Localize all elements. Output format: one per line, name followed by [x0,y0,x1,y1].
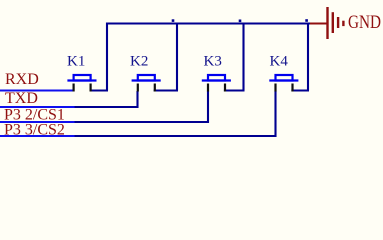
pin stub TXD (bright) [0,106,75,108]
svg-text:TXD: TXD [5,90,38,107]
power port GND [310,7,345,39]
wire: K3 right pin to drop [224,89,245,91]
pushbutton K1 [67,75,96,92]
junction dot at K4 drop [305,19,308,22]
wire: K2 drop [176,23,178,91]
wire: K1 right pin to drop [90,89,109,91]
svg-text:K1: K1 [67,54,85,70]
wire: P3 3/CS2 net to K4 left pin [75,91,276,136]
junction dot at K2 drop [172,19,175,22]
pushbutton K2 [132,75,161,92]
wire: K4 drop [307,23,309,91]
wire: top bus with K1 drop [107,24,310,91]
pin stub P3 2/CS1 (bright) [0,121,75,123]
wire: K3 drop [242,23,244,91]
wire: P3 2/CS1 net to K3 left pin [75,91,209,122]
pin stub P3 3/CS2 (bright) [0,135,75,137]
svg-text:GND: GND [348,12,381,33]
svg-text:K4: K4 [270,54,289,70]
wire: K2 right pin to drop [154,89,178,91]
wire: K4 right pin to drop [291,89,309,91]
pushbutton K4 [269,75,298,92]
wire: TXD net to K2 left pin [75,91,138,107]
svg-text:K2: K2 [130,54,148,70]
svg-text:K3: K3 [204,54,222,70]
junction dot at K3 drop [239,20,242,23]
pin stub RXD (bright) [0,89,75,91]
svg-text:RXD: RXD [5,71,39,88]
pushbutton K3 [202,75,231,92]
svg-text:P3 3/CS2: P3 3/CS2 [4,122,65,139]
sheet background [0,0,383,161]
